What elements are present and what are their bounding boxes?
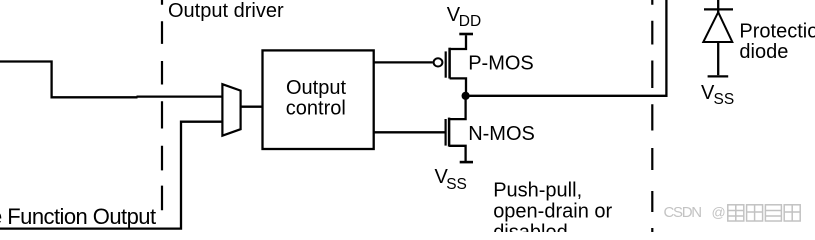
svg-text:disabled: disabled: [493, 221, 568, 232]
svg-text:SS: SS: [714, 91, 735, 108]
svg-text:Push-pull,: Push-pull,: [493, 180, 582, 202]
svg-text:DD: DD: [459, 13, 481, 30]
svg-text:P-MOS: P-MOS: [468, 53, 534, 75]
svg-text:CSDN: CSDN: [664, 204, 702, 221]
svg-text:diode: diode: [739, 41, 788, 63]
svg-text:open-drain or: open-drain or: [493, 201, 612, 223]
svg-text:N-MOS: N-MOS: [468, 123, 535, 145]
svg-text:@: @: [712, 204, 726, 220]
svg-text:SS: SS: [446, 176, 467, 193]
svg-text:e Function Output: e Function Output: [0, 204, 156, 229]
svg-text:Output driver: Output driver: [168, 0, 284, 22]
svg-text:Protection: Protection: [739, 21, 815, 43]
svg-text:Output: Output: [286, 77, 346, 99]
svg-text:control: control: [286, 98, 346, 120]
